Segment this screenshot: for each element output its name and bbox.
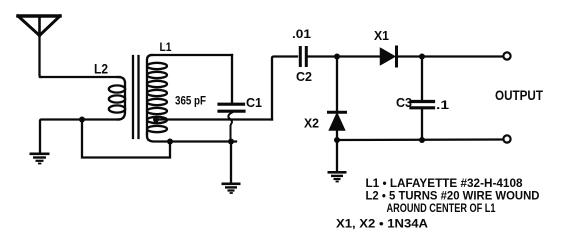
wire L1 tap to riser bbox=[156, 118, 272, 120]
node tap (L1 tap junction) bbox=[153, 117, 159, 123]
junction dot E (C3 branch, top rail) bbox=[419, 54, 425, 60]
diode X2 bbox=[329, 57, 346, 141]
wire riser up to C2 rail bbox=[272, 57, 297, 120]
junction dot G (C3 bottom rail) bbox=[419, 137, 425, 143]
svg-text:C2: C2 bbox=[296, 69, 312, 84]
svg-text:365 pF: 365 pF bbox=[175, 96, 206, 108]
capacitor C1 bbox=[219, 55, 244, 142]
wire left ground rail bbox=[170, 140, 236, 142]
junction dot A bbox=[79, 117, 85, 123]
wire antenna to L2 top bbox=[40, 76, 120, 78]
wire junction C down to ground G2 bbox=[230, 142, 232, 183]
transformer core bbox=[133, 56, 139, 138]
wire L1 top to C1 top bbox=[151, 54, 232, 56]
svg-text:X1, X2 • 1N34A: X1, X2 • 1N34A bbox=[336, 217, 428, 231]
coil L2 bbox=[109, 77, 125, 120]
svg-text:X1: X1 bbox=[374, 28, 389, 43]
wire X1 to output top bbox=[397, 55, 503, 57]
svg-text:C3: C3 bbox=[396, 95, 412, 110]
wire C2 to X1 bbox=[308, 55, 380, 57]
wire junction A down and right to L1 bottom node bbox=[82, 120, 170, 158]
antenna bbox=[18, 16, 60, 36]
wire antenna stem down to horizontal feed bbox=[40, 36, 42, 78]
svg-text:C1: C1 bbox=[246, 95, 262, 110]
svg-text:AROUND CENTER OF L1: AROUND CENTER OF L1 bbox=[387, 201, 496, 215]
wire L1 bottom lead bbox=[147, 133, 170, 142]
wire L2 bottom to left ground bbox=[40, 120, 119, 153]
svg-text:X2: X2 bbox=[304, 116, 319, 131]
output terminal top bbox=[503, 52, 510, 59]
svg-text:L2: L2 bbox=[94, 61, 108, 77]
coil L1 bbox=[147, 55, 167, 134]
junction dot C (C1 bottom / ground) bbox=[228, 139, 234, 145]
capacitor C2 bbox=[300, 48, 306, 66]
ground G2 bbox=[222, 183, 241, 194]
svg-text:OUTPUT: OUTPUT bbox=[495, 88, 544, 103]
svg-text:L1: L1 bbox=[160, 40, 172, 54]
svg-text:.1: .1 bbox=[436, 98, 449, 112]
junction dot D (X2 branch, top rail) bbox=[334, 54, 340, 60]
junction dot B (L1 bottom) bbox=[167, 139, 173, 145]
wire bottom rail to output bbox=[337, 138, 503, 141]
svg-text:.01: .01 bbox=[292, 27, 311, 41]
diode X1 bbox=[381, 47, 397, 66]
wire junction F down to ground G3 bbox=[336, 140, 338, 171]
junction dot F (X2 bottom rail) bbox=[334, 137, 340, 143]
output terminal bottom bbox=[503, 135, 510, 142]
capacitor C3 bbox=[411, 57, 434, 141]
ground G3 bbox=[328, 171, 347, 182]
ground G1 bbox=[30, 153, 50, 165]
